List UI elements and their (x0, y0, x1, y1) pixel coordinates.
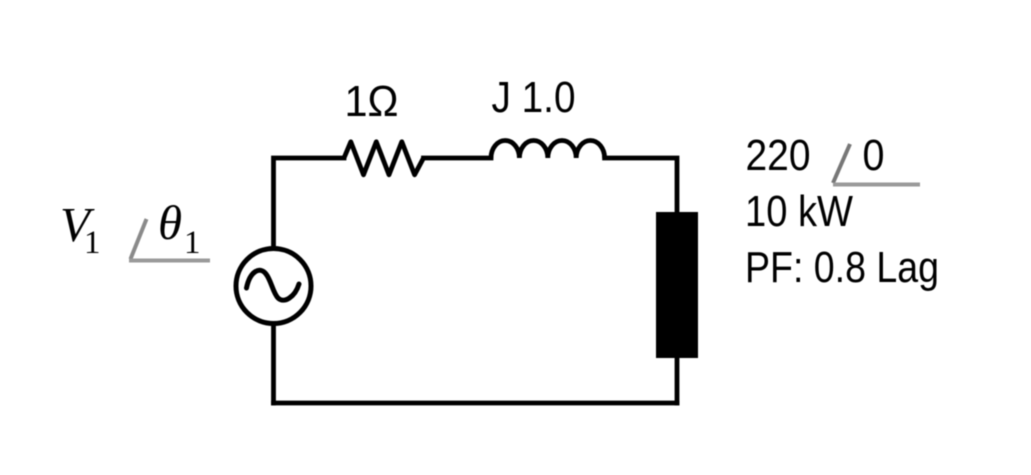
svg-text:J 1.0: J 1.0 (492, 73, 576, 122)
svg-text:1: 1 (84, 225, 101, 261)
svg-text:θ: θ (158, 195, 182, 250)
wire: resistor to inductor (424, 156, 492, 161)
resistor R (1 ohm) zigzag (344, 142, 424, 175)
wire: inductor to top-right corner down to load (605, 158, 677, 216)
wire: bottom-left corner up to source bottom terminal (271, 323, 276, 403)
AC source sine symbol (247, 270, 300, 300)
AC source V1 circle (236, 249, 311, 324)
svg-text:1Ω: 1Ω (345, 77, 399, 126)
svg-text:PF: 0.8 Lag: PF: 0.8 Lag (745, 243, 939, 292)
load Z (220/0, 10 kW, PF 0.8 lag) solid rectangle (656, 212, 698, 358)
wire: source top terminal up and right to resistor (274, 158, 345, 249)
svg-text:10 kW: 10 kW (745, 187, 853, 236)
angle symbol underline for 220 (833, 183, 920, 187)
svg-text:0: 0 (863, 131, 885, 180)
svg-text:1: 1 (184, 225, 201, 261)
angle symbol slash for 220 (833, 144, 850, 183)
svg-text:220: 220 (746, 131, 811, 180)
inductor L (J 1.0) four humps (491, 140, 605, 158)
wire: bottom return run (274, 401, 678, 406)
wire: load bottom to bottom-right corner (675, 354, 680, 403)
angle symbol underline for V1 (129, 259, 210, 263)
angle symbol slash for V1 (131, 219, 147, 259)
